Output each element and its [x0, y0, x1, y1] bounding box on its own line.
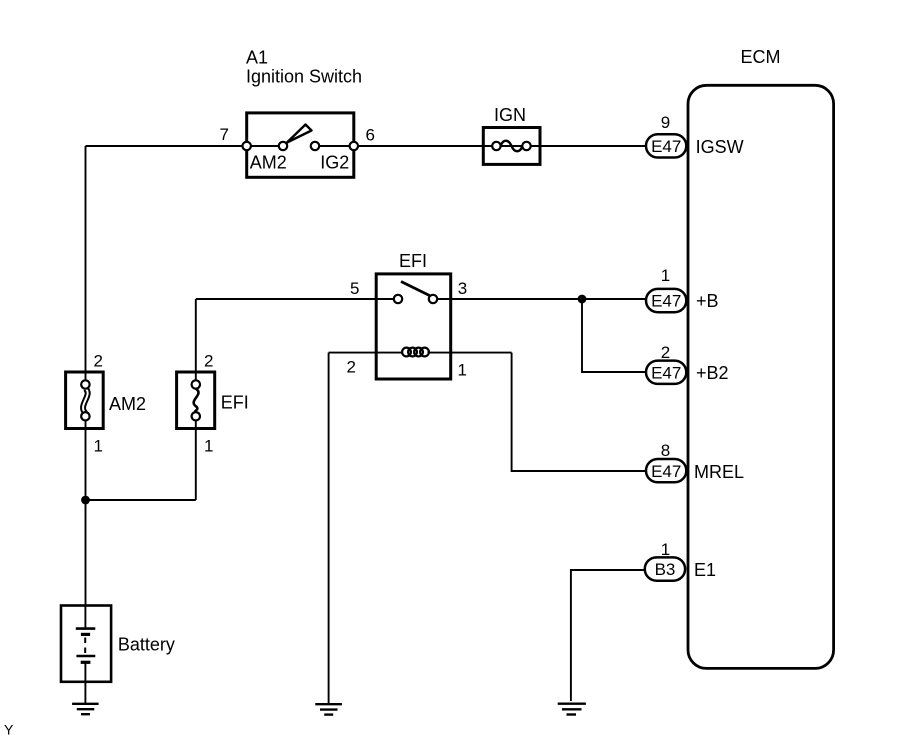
svg-text:8: 8 [661, 441, 670, 460]
svg-text:AM2: AM2 [250, 153, 287, 173]
svg-text:IGN: IGN [494, 105, 526, 125]
svg-text:+B: +B [696, 291, 719, 311]
svg-text:7: 7 [220, 125, 229, 144]
svg-text:3: 3 [458, 279, 467, 298]
svg-text:9: 9 [661, 113, 670, 132]
svg-text:B3: B3 [655, 560, 676, 579]
svg-text:MREL: MREL [694, 462, 744, 482]
svg-text:5: 5 [350, 279, 359, 298]
svg-text:Ignition Switch: Ignition Switch [246, 67, 362, 87]
svg-text:IGSW: IGSW [696, 137, 744, 157]
svg-text:1: 1 [458, 361, 467, 380]
svg-text:E47: E47 [651, 137, 681, 156]
svg-text:E47: E47 [651, 292, 681, 311]
svg-text:1: 1 [661, 266, 670, 285]
svg-text:1: 1 [94, 437, 103, 456]
svg-text:E47: E47 [651, 462, 681, 481]
svg-text:1: 1 [204, 437, 213, 456]
svg-text:+B2: +B2 [696, 363, 729, 383]
svg-text:AM2: AM2 [109, 394, 146, 414]
svg-text:E1: E1 [694, 560, 716, 580]
svg-text:2: 2 [347, 357, 356, 376]
svg-text:ECM: ECM [741, 47, 781, 67]
svg-text:IG2: IG2 [320, 153, 349, 173]
svg-text:EFI: EFI [399, 251, 427, 271]
svg-text:EFI: EFI [221, 393, 249, 413]
svg-text:2: 2 [661, 343, 670, 362]
svg-text:E47: E47 [651, 363, 681, 382]
svg-text:2: 2 [94, 352, 103, 371]
svg-text:2: 2 [204, 352, 213, 371]
svg-text:Battery: Battery [118, 635, 175, 655]
svg-text:A1: A1 [246, 48, 268, 68]
svg-text:Y: Y [4, 722, 14, 738]
svg-text:6: 6 [366, 125, 375, 144]
svg-text:1: 1 [661, 540, 670, 559]
